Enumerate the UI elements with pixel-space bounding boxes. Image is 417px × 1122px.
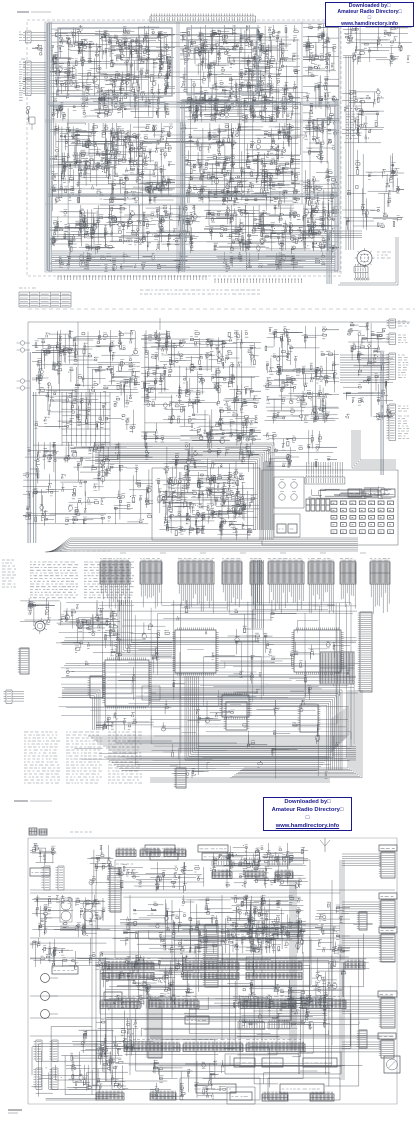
band2 left jack connectors (17, 341, 31, 390)
downloaded-by box top (325, 2, 414, 27)
microphone connector J5 (355, 248, 375, 268)
transformer T2 (83, 900, 93, 921)
PLL LED DISP box (299, 1052, 341, 1074)
band2 bottom ruler marks (120, 552, 366, 554)
logic IC5 (219, 692, 251, 719)
band4 bottom cluster 2 (241, 995, 330, 1030)
right small ladder b (357, 1030, 367, 1048)
connector row A block 3 (246, 959, 302, 980)
capacitor C9 block (27, 117, 35, 130)
right column conn 1 (379, 893, 397, 928)
resistor array RA9 (370, 559, 390, 585)
connector row B block 2 (149, 997, 199, 1009)
oscillator stage X401 area (49, 205, 201, 254)
form number C525 (8, 1110, 22, 1113)
band4 bottom middle cluster (150, 1060, 230, 1100)
sub board frame (274, 514, 300, 537)
connector J2 (23, 61, 31, 80)
connector J1 wires (31, 33, 46, 41)
band4 top-left relay group (30, 843, 57, 865)
bottom left cluster (66, 1030, 126, 1094)
TO-4001A label (116, 863, 133, 865)
mixer stage Q201 area (180, 25, 300, 120)
right top label boxes (198, 845, 228, 860)
meter M1 (384, 1056, 400, 1073)
mid vertical bus (181, 122, 185, 270)
connector row C block 2 (183, 1040, 243, 1052)
mid lower cluster (212, 488, 254, 540)
logic pin assignment list (30, 562, 134, 598)
bottom hconn c (262, 1092, 288, 1101)
switch unit cluster (155, 472, 257, 536)
bottom hconn d (310, 1092, 334, 1101)
SWITCH connector right 2 (378, 1033, 396, 1058)
heavy bus horizontal mid (48, 102, 338, 104)
keypad label boxes (348, 489, 395, 497)
connector row B block 4 (302, 997, 346, 1009)
top edge tick row (150, 14, 256, 23)
right connector labels (346, 106, 362, 138)
table caption (19, 287, 36, 289)
IC1 bypass parts (96, 712, 154, 730)
bottom hconn b (150, 1091, 176, 1100)
band3 data bus bundle lower 2 (104, 757, 330, 770)
band4 bus 3 (340, 860, 344, 1080)
resistor array RA5 (250, 559, 263, 585)
left mid cluster (32, 895, 110, 937)
right edge connector band3 (358, 612, 372, 692)
band2 right connector P1 (387, 319, 410, 328)
wiring pad matrix (62, 392, 110, 446)
resistor array RA3 (178, 559, 214, 585)
signal level table (19, 292, 71, 307)
final stage cluster (87, 845, 114, 885)
keypad switch matrix S1-S35 (331, 501, 394, 534)
LED display DS1 (306, 499, 330, 511)
connector row B block 1 (100, 997, 140, 1009)
band4 central fill (240, 898, 306, 953)
band4 top hconn h (245, 870, 265, 879)
connector J1 (23, 31, 31, 43)
band4 top hconn e (240, 858, 260, 867)
bottom left connector stack (34, 1040, 59, 1090)
driver cluster top (116, 862, 204, 893)
band4 right mid components (312, 958, 346, 1002)
keypad riser bus (352, 430, 396, 468)
page divider dashed line (28, 308, 415, 310)
bottom strip components (50, 252, 190, 273)
band3 lower pin list (24, 732, 142, 783)
bottom tiny annotations (140, 290, 260, 294)
band2 right connector P5 (387, 414, 410, 441)
schematic diagram title (14, 800, 52, 802)
resistor array RA8 (340, 559, 356, 585)
band4 top hconn d (212, 858, 232, 867)
mid gap components (185, 96, 293, 123)
band4 top right cluster (222, 843, 308, 870)
top hconn a (116, 848, 136, 857)
rotary switch sub-frame (274, 477, 304, 508)
IF unit title text (17, 11, 51, 13)
band3 route bus E (62, 690, 100, 730)
band3 route bus B (185, 676, 356, 760)
connector J2 pin labels (19, 62, 26, 77)
crystal filter FL1 area (303, 24, 339, 164)
band4 bus 1 (290, 880, 296, 1050)
band4 routing wires (100, 923, 380, 1090)
right column fan wires (342, 854, 381, 1049)
driver array right (320, 652, 354, 684)
shield box 2 (187, 28, 257, 94)
IF unit divider vertical (177, 22, 179, 272)
left lower labels (19, 95, 23, 100)
bottom bus bundle (52, 251, 335, 270)
heavy bus vertical right (335, 100, 337, 272)
RIL BC box (227, 1087, 255, 1104)
band2 bottom label (55, 550, 110, 552)
band2 heavy vertical bus (28, 352, 30, 543)
resistor array RA4 (222, 559, 242, 585)
band4 bus 4 (60, 926, 340, 930)
IF unit divider horizontal (45, 120, 340, 122)
LED display unit box (268, 1078, 340, 1100)
central cluster band4 (120, 895, 304, 954)
right mid hconn (345, 960, 365, 969)
connector J2 wires (31, 63, 46, 78)
lower-left audio cluster (23, 442, 153, 526)
band3 data bus bundle lower (88, 706, 348, 752)
heavy bus horizontal mid2 (48, 194, 338, 196)
bottom bus bundle band2 (45, 538, 358, 552)
connector J5 pin terminals (354, 264, 369, 280)
IF unit divider horizontal 2 (45, 203, 340, 205)
connector J1 pin labels (19, 32, 23, 40)
shield box 1 (58, 28, 172, 96)
band4 bus 2 (150, 1036, 380, 1038)
band4 top hconn i (275, 870, 293, 879)
band3 left edge labels (2, 560, 16, 587)
heavy bus vertical mid (182, 100, 184, 272)
band4 top hconn g (212, 870, 232, 879)
band2 top rail wire (28, 318, 410, 520)
connector row A block 1 (102, 959, 154, 980)
antenna symbol (320, 838, 330, 852)
connector J3 (23, 78, 31, 96)
band4 mid hconn 3b (268, 1020, 290, 1030)
display connector (305, 475, 345, 485)
central unit frame (115, 860, 310, 958)
latch IC7 (298, 705, 321, 732)
left connector pair (42, 866, 65, 890)
band3 scattered parts 2 (150, 700, 349, 779)
TX unit label (70, 831, 92, 833)
connector row under frame (58, 276, 206, 280)
connector J3 pin labels (19, 79, 26, 93)
EXT SP label box (52, 966, 78, 974)
band4 center-right cluster (230, 895, 305, 950)
connector J5 labels (377, 252, 391, 258)
band3 route bus A (150, 690, 342, 770)
band3 right descent bundle (230, 690, 362, 778)
band4 mid hconn 3a (238, 1020, 265, 1030)
IF unit outer dashed frame (27, 20, 341, 276)
band4 left column fill (30, 938, 110, 969)
band3 route bus C (252, 560, 263, 628)
top-right components near J102 (343, 24, 412, 67)
FINAL unit label box (30, 868, 50, 876)
band2 right connector wires (340, 355, 389, 383)
A1 unit cluster (102, 955, 194, 1010)
band1 long rails (53, 27, 335, 263)
bottom hconn a (96, 1091, 124, 1100)
right small ladder a (357, 912, 367, 930)
VCO stage cluster (32, 330, 140, 433)
small logic block 2 (88, 676, 106, 698)
heavy corner bus (327, 230, 331, 284)
central tall connector (146, 1000, 162, 1058)
top hconn b (140, 848, 160, 857)
display feed loop wires (338, 237, 398, 285)
central vertical ladder (203, 925, 218, 987)
bus bundle to keypad (95, 443, 274, 530)
right-going bus (300, 231, 362, 238)
resistor array RA1 (100, 559, 130, 585)
band2 heavy vertical bus 2 (34, 392, 36, 543)
resistor array RA6 (268, 559, 304, 585)
resistor array RA7 (308, 559, 334, 585)
left connector band3 (18, 648, 29, 674)
band2 right connector P3 (387, 353, 409, 380)
IF unit divider vertical 2 (301, 22, 303, 204)
left vertical bus (48, 23, 50, 271)
relay RL1 (32, 44, 43, 55)
vertical conn mid (108, 868, 121, 912)
A1 unit frame (100, 952, 196, 1014)
microcontroller IC1 (102, 657, 151, 708)
reference oscillator cluster (263, 326, 339, 423)
resistor array output wires (101, 584, 389, 614)
logic IC4 (172, 627, 218, 675)
corner connector blocks (29, 828, 47, 835)
latch IC6 (224, 702, 250, 730)
right column conn 2 (379, 927, 397, 962)
connector row B block 3 (240, 997, 296, 1009)
AGC stage Q301 area (49, 123, 175, 204)
small logic block (142, 686, 160, 700)
band4 top hconn f (268, 858, 288, 867)
left logic components (20, 598, 62, 626)
A1 unit label (104, 992, 122, 1000)
right side components (342, 88, 384, 143)
display connector risers (307, 462, 343, 474)
band4 mid-right cluster (210, 852, 308, 889)
band2 right heavy bus (381, 352, 383, 475)
band4 center cluster 2 (215, 980, 335, 1009)
CAR unit box (225, 1054, 299, 1074)
IF unit main frame (45, 22, 340, 272)
PLL unit box (180, 1078, 260, 1100)
mid wide rail (30, 890, 395, 893)
DIGITAL label box (185, 1016, 209, 1024)
bottom strip components 2 (217, 252, 336, 271)
detector stage D301 area (180, 123, 300, 207)
modulator cluster (263, 430, 337, 468)
IF amplifier stage Q101 area (49, 25, 175, 121)
clock buffer cluster (56, 608, 120, 649)
logic IC3 (291, 627, 343, 674)
audio stage Q401 area (303, 168, 339, 252)
transformer T1 (60, 898, 72, 922)
band4 lower mid fill (96, 1018, 140, 1057)
relay label (21, 58, 25, 60)
resistor array RA2 (140, 559, 162, 585)
connector row C block 3 (246, 1040, 305, 1052)
buffer stage Q501 area (204, 205, 339, 254)
band3 scattered parts (61, 600, 359, 700)
jack J4 (26, 106, 30, 122)
downloaded-by box bottom (263, 797, 352, 831)
band2 right connector P2 (387, 333, 408, 345)
right side sparse components (342, 150, 404, 230)
band3 bottom component (170, 766, 186, 788)
keypad drop wires (309, 486, 394, 498)
band4 outer frame (28, 838, 397, 1104)
lower-mid cluster (163, 443, 259, 521)
connector J3 wires (31, 80, 46, 94)
EXT speaker jacks (41, 974, 59, 1019)
crystal oscillator X1 (33, 618, 48, 634)
display assembly feed bundle (264, 462, 274, 540)
display assembly frame (262, 470, 398, 545)
band3 bottom wires (150, 778, 330, 782)
RF OUT label boxes (228, 930, 278, 938)
top hconn c (164, 848, 186, 857)
band4 left routing (31, 1027, 129, 1101)
band4 long rail wires (30, 880, 393, 1095)
connector row C block 1 (124, 1040, 180, 1052)
heavy bus vertical left (49, 22, 51, 272)
connector row A block 2 (183, 959, 239, 980)
test point dots row (215, 279, 302, 283)
band3 routing wires (58, 603, 356, 770)
FINAL label box 2 (145, 845, 178, 860)
SWITCH connector right (378, 991, 397, 1028)
PLL IC stage cluster (141, 330, 261, 449)
right column cluster (315, 902, 350, 955)
TX mixer cluster (343, 322, 393, 420)
band3 edge connector J2 (4, 690, 25, 704)
right edge vertical wires (346, 56, 353, 250)
band2 right connector P4 (387, 404, 409, 413)
band3 route bus D (118, 600, 172, 656)
switch unit frame (152, 468, 260, 540)
right column top connector (379, 845, 397, 878)
